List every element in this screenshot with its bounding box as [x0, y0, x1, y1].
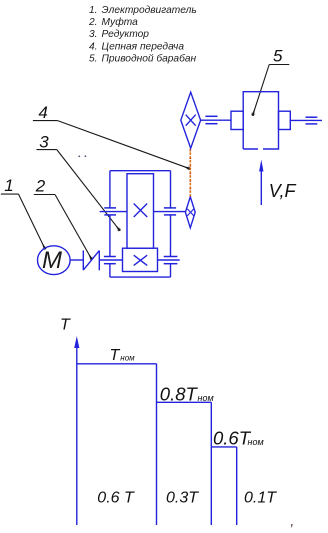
svg-text:,: ,: [291, 514, 295, 529]
output shaft: [100, 211, 127, 213]
svg-text:5: 5: [273, 47, 283, 66]
gearbox (item 3) housing: [110, 171, 171, 277]
drum shaft left: [201, 119, 231, 121]
legend line 4: Цепная передача: [89, 41, 184, 52]
bearing lower left: [104, 257, 116, 264]
legend line 5: Приводной барабан: [89, 52, 196, 64]
svg-text:0.3Т: 0.3Т: [166, 489, 199, 506]
0.1T duration label: [244, 490, 277, 507]
svg-text:ном: ном: [198, 393, 214, 403]
step 3 drop: [236, 447, 238, 525]
V,F arrow: [259, 160, 263, 206]
svg-text:5.: 5.: [89, 53, 98, 64]
callout 3 label: [36, 132, 120, 230]
T axis: [74, 336, 79, 525]
stray dots: [78, 155, 86, 157]
legend line 1: Электродвигатель: [89, 5, 197, 16]
input shaft: [99, 259, 122, 261]
drum right support block: [279, 111, 291, 129]
svg-text:2.: 2.: [88, 17, 98, 28]
gear wheel big: [127, 174, 154, 249]
step 2 line: [157, 401, 212, 403]
step 1 drop: [156, 364, 158, 525]
svg-text:2: 2: [35, 176, 46, 195]
step 2 drop: [210, 402, 212, 525]
svg-text:Электродвигатель: Электродвигатель: [102, 5, 197, 16]
svg-text:0.1Т: 0.1Т: [244, 490, 277, 507]
svg-text:0.8Т: 0.8Т: [160, 383, 199, 404]
svg-text:4.: 4.: [89, 41, 98, 52]
legend line 3: Редуктор: [89, 29, 149, 40]
motor shaft: [70, 259, 83, 261]
gear big cross: [134, 204, 148, 218]
0.6Tnom label: [213, 428, 264, 449]
callout 5 label: [253, 47, 290, 116]
svg-text:T: T: [60, 317, 71, 334]
callout 1 label: [1, 176, 45, 249]
0.3T duration label: [166, 489, 199, 506]
sprocket small: [185, 197, 195, 228]
bearing lower right: [164, 257, 178, 264]
svg-text:V,F: V,F: [269, 181, 297, 201]
drum shaft right bearing marks: [306, 117, 318, 124]
chain (item 4) dashed line: [189, 149, 191, 197]
svg-text:1: 1: [4, 176, 13, 195]
0.8Tnom label: [160, 383, 214, 404]
drum shaft right: [290, 119, 322, 121]
callout 2 label: [34, 176, 92, 259]
legend line 2: Муфта: [88, 16, 138, 28]
svg-text:Т: Т: [110, 347, 121, 364]
bearing upper left: [104, 208, 116, 215]
pinion: [123, 248, 158, 271]
coupling (item 2): [83, 250, 99, 270]
svg-text:3: 3: [39, 132, 49, 151]
callout 4 label: [33, 103, 190, 169]
svg-text:1.: 1.: [89, 5, 98, 16]
svg-text:0.6Т: 0.6Т: [213, 428, 252, 449]
Tnom label: [110, 347, 136, 364]
svg-text:Муфта: Муфта: [102, 16, 139, 28]
drive drum (item 5) body: [243, 92, 278, 149]
sprocket big: [181, 92, 201, 148]
svg-text:ном: ном: [120, 354, 135, 363]
bearing upper right: [164, 208, 176, 215]
motor (item 1) circle: [38, 246, 71, 275]
svg-text:M: M: [42, 247, 62, 274]
svg-text:Цепная передача: Цепная передача: [102, 41, 185, 52]
step 3 line: [211, 446, 236, 448]
drum shaft left bearing marks: [205, 116, 217, 123]
svg-text:4: 4: [38, 103, 47, 122]
step 1 line: [77, 363, 157, 365]
svg-text:Редуктор: Редуктор: [102, 29, 150, 40]
svg-text:ном: ном: [248, 437, 264, 447]
svg-text:Приводной барабан: Приводной барабан: [102, 52, 197, 64]
svg-text:0.6 Т: 0.6 Т: [97, 489, 135, 506]
pinion cross: [134, 255, 148, 265]
sprocket small cross: [187, 209, 194, 216]
drum left support block: [231, 111, 243, 129]
svg-text:3.: 3.: [89, 29, 98, 40]
0.6T duration label: [97, 489, 135, 506]
sprocket big cross: [186, 115, 196, 126]
